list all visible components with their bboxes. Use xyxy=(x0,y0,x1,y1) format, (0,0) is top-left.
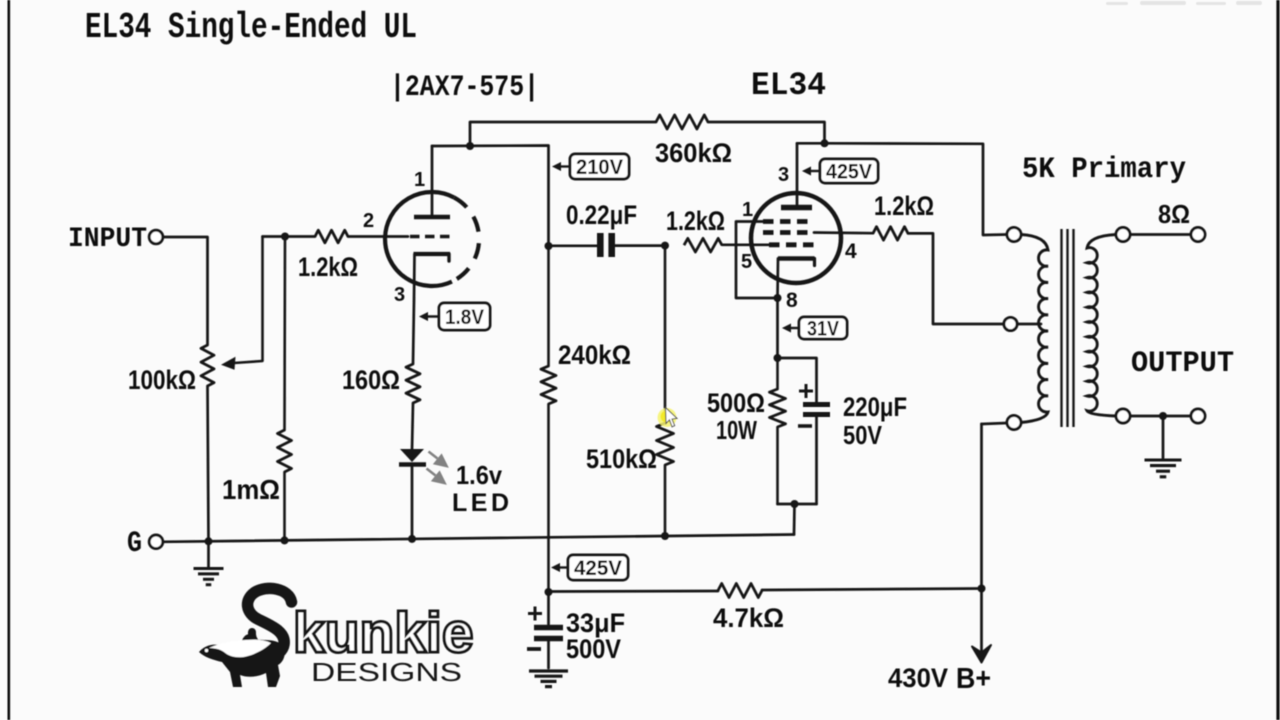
right video border line xyxy=(1276,0,1279,720)
voltage box 425V (B+ node) xyxy=(554,566,568,568)
minus sign 33uF xyxy=(527,647,541,651)
ground symbol main xyxy=(207,541,210,567)
wire 425 node to 4.7k xyxy=(549,590,719,593)
U1 cathode lead down (pin3) xyxy=(413,254,415,364)
cathode RC bottom bracket xyxy=(778,503,817,506)
V2 grid row g2 xyxy=(763,230,814,235)
tube U1 12AX7 envelope (solid part) xyxy=(385,192,454,286)
svg-text:160Ω: 160Ω xyxy=(342,365,400,395)
svg-text:3: 3 xyxy=(778,164,789,186)
svg-text:1: 1 xyxy=(742,199,753,221)
V2 cathode xyxy=(778,256,815,260)
svg-text:kunkie: kunkie xyxy=(293,601,474,665)
wire rail up and right (360k rail) xyxy=(470,122,656,146)
svg-text:G: G xyxy=(127,527,142,561)
wire R160 to LED xyxy=(412,403,413,450)
transformer T1 primary terminal top xyxy=(1007,228,1021,242)
svg-text:B+: B+ xyxy=(956,663,991,695)
svg-text:510kΩ: 510kΩ xyxy=(586,444,657,474)
svg-text:425V: 425V xyxy=(826,161,872,184)
svg-text:430V: 430V xyxy=(888,663,948,693)
resistor 240k xyxy=(547,246,550,366)
junction cathode RC top xyxy=(774,354,782,362)
plus sign 220uF xyxy=(799,384,813,398)
minus sign 220uF xyxy=(798,424,812,428)
svg-text:4: 4 xyxy=(845,240,857,263)
U1 grid dashes xyxy=(410,235,452,239)
resistor 160 ohm xyxy=(406,364,420,403)
svg-text:10W: 10W xyxy=(716,415,757,445)
svg-text:1: 1 xyxy=(414,169,425,191)
svg-text:220μF: 220μF xyxy=(843,392,907,422)
svg-text:8Ω: 8Ω xyxy=(1158,199,1190,229)
wire cap to grid node xyxy=(615,244,665,247)
wire pot bottom to ground bus xyxy=(208,386,209,541)
svg-text:LED: LED xyxy=(452,489,509,517)
svg-text:OUTPUT: OUTPUT xyxy=(1131,347,1234,381)
junction gnd at pot xyxy=(205,537,213,545)
svg-text:360kΩ: 360kΩ xyxy=(655,138,732,168)
secondary bottom terminal left xyxy=(1116,409,1130,423)
wire secondary bottom xyxy=(1130,415,1191,418)
svg-text:500V: 500V xyxy=(566,634,621,664)
svg-text:EL34 Single-Ended UL: EL34 Single-Ended UL xyxy=(85,7,417,48)
wire 360k to EL34 plate node xyxy=(708,122,825,143)
svg-text:1.8V: 1.8V xyxy=(445,306,484,329)
wire LED to ground bus xyxy=(411,466,414,537)
wire to cap xyxy=(549,244,598,247)
junction gnd at 510k xyxy=(661,532,669,540)
pins1+5 tie bracket xyxy=(736,222,778,299)
svg-text:1.2kΩ: 1.2kΩ xyxy=(874,191,934,221)
svg-text:5K Primary: 5K Primary xyxy=(1022,153,1186,187)
junction top-left rail xyxy=(466,142,474,150)
LED light arrows xyxy=(427,452,447,484)
ground symbol secondary xyxy=(1162,416,1165,458)
svg-text:0.22μF: 0.22μF xyxy=(566,200,637,230)
pot wiper arrow xyxy=(234,237,263,364)
V2 cathode lead to pin 8 xyxy=(776,259,779,299)
wire OPT primary bottom riser xyxy=(980,424,983,651)
svg-text:EL34: EL34 xyxy=(751,67,826,104)
LED D1 xyxy=(400,449,424,462)
svg-text:5: 5 xyxy=(741,251,752,273)
resistor 1.2k screen xyxy=(873,227,908,240)
wire pin4 out xyxy=(814,231,873,234)
ground bus wire xyxy=(163,535,794,542)
svg-text:240kΩ: 240kΩ xyxy=(558,340,631,370)
voltage box 1.8V xyxy=(422,315,439,317)
junction EL34 plate node xyxy=(821,139,829,147)
svg-text:|2AX7-575|: |2AX7-575| xyxy=(390,71,539,105)
V2 grid row g3 xyxy=(763,219,814,224)
wire R to pin2 xyxy=(348,235,408,238)
svg-text:DESIGNS: DESIGNS xyxy=(311,657,462,687)
resistor 510k xyxy=(664,246,667,423)
mouse cursor highlight xyxy=(658,408,677,427)
wire wiper riser to grid xyxy=(263,235,286,238)
svg-text:425V: 425V xyxy=(574,557,622,580)
svg-text:8: 8 xyxy=(786,289,798,312)
secondary terminal 8ohm right xyxy=(1191,228,1205,242)
svg-text:1mΩ: 1mΩ xyxy=(222,474,280,505)
T1 UL tap stub xyxy=(1017,323,1041,326)
V2 plate bar xyxy=(781,205,812,211)
tube U1 envelope dashed right side xyxy=(452,198,479,282)
capacitor 220uF branch xyxy=(778,358,817,402)
svg-text:3: 3 xyxy=(394,284,405,306)
voltage box 425V (plate) xyxy=(805,170,820,172)
junction pin8 node xyxy=(774,294,782,302)
wire plate node to OPT primary top xyxy=(825,143,1008,235)
T1 primary coil xyxy=(1021,235,1048,423)
voltage box 210V xyxy=(555,165,570,167)
U1 plate lead up xyxy=(431,146,434,217)
svg-text:2: 2 xyxy=(363,210,374,232)
faint overlay smudges top right xyxy=(1106,1,1262,5)
voltage box 31V xyxy=(785,327,799,329)
junction secondary ground xyxy=(1159,412,1167,420)
resistor 500 ohm 10W xyxy=(776,358,779,389)
svg-text:31V: 31V xyxy=(807,318,839,341)
wire 4.7k to B+ node xyxy=(762,589,982,591)
resistor 360k xyxy=(656,115,708,129)
svg-text:1.2kΩ: 1.2kΩ xyxy=(298,252,358,282)
svg-text:500Ω: 500Ω xyxy=(707,388,765,418)
tube V2 EL34 envelope xyxy=(751,193,841,283)
terminal G xyxy=(149,535,163,549)
V2 grid row g1 xyxy=(769,242,814,247)
T1 secondary coil xyxy=(1087,235,1116,417)
svg-text:1.6v: 1.6v xyxy=(456,460,502,490)
wire 240k down to 425 node (crosses gnd bus) xyxy=(547,404,550,592)
resistor 1.2k grid xyxy=(315,230,348,243)
U1 plate bar xyxy=(414,215,450,220)
wire screen to transformer tap xyxy=(908,233,1004,324)
svg-text:1.2kΩ: 1.2kΩ xyxy=(666,206,725,236)
logo skunk drawing xyxy=(199,588,292,687)
V2 plate lead (pin 3) xyxy=(796,143,799,207)
svg-text:INPUT: INPUT xyxy=(68,224,147,255)
plus sign 33uF xyxy=(528,607,542,621)
resistor 4.7k xyxy=(718,584,762,598)
secondary bottom terminal right xyxy=(1191,409,1205,423)
junction B+ node xyxy=(978,585,986,593)
wire 8ohm tap xyxy=(1130,233,1191,236)
svg-text:100kΩ: 100kΩ xyxy=(128,365,196,395)
junction gnd at 1m xyxy=(281,536,289,544)
terminal INPUT xyxy=(149,230,163,244)
transformer T1 UL tap terminal xyxy=(1004,317,1017,330)
svg-text:210V: 210V xyxy=(576,156,623,179)
capacitor 33uF xyxy=(547,592,550,624)
junction 1m branch xyxy=(281,233,289,241)
ground symbol 33uF xyxy=(529,669,568,672)
wire to R 1.2k xyxy=(285,235,315,238)
secondary terminal left xyxy=(1116,228,1130,242)
wire pin8 down xyxy=(776,298,779,358)
arrow B+ down xyxy=(972,645,991,663)
junction grid/510k node xyxy=(661,242,669,250)
wire U1 plate to vertical riser xyxy=(432,146,549,247)
potentiometer R 100k xyxy=(201,345,214,386)
svg-text:50V: 50V xyxy=(843,420,883,450)
wire cathode RC to ground bus xyxy=(793,504,796,535)
transformer T1 primary terminal bottom xyxy=(1007,416,1021,430)
wire input to pot xyxy=(163,237,208,345)
wire pin3 top tee xyxy=(797,142,825,145)
U1 cathode xyxy=(447,254,450,261)
resistor 1m ohm xyxy=(283,237,286,431)
left video border line xyxy=(8,0,11,720)
T1 core lines xyxy=(1062,229,1074,427)
wire primary bottom to OPT xyxy=(982,423,1008,424)
wire into EL34 g1 row xyxy=(722,243,769,246)
junction gnd at LED xyxy=(408,535,416,543)
capacitor 0.22uF plates xyxy=(597,233,604,257)
junction coupling node xyxy=(545,242,553,250)
resistor 1.2k EL34 grid xyxy=(684,238,722,252)
junction 425 node xyxy=(545,588,553,596)
svg-text:4.7kΩ: 4.7kΩ xyxy=(713,603,784,633)
